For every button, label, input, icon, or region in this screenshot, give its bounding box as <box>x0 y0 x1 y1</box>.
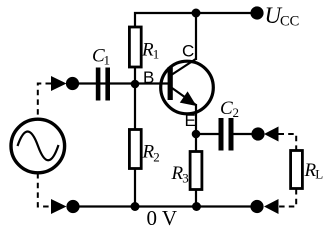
svg-text:2: 2 <box>153 150 160 165</box>
svg-text:C: C <box>182 42 194 61</box>
svg-text:E: E <box>185 111 196 130</box>
svg-text:L: L <box>315 167 323 182</box>
svg-text:3: 3 <box>182 171 189 186</box>
svg-text:2: 2 <box>233 105 240 120</box>
svg-text:1: 1 <box>153 47 160 62</box>
svg-text:CC: CC <box>280 14 299 30</box>
svg-text:B: B <box>143 68 154 87</box>
svg-text:C: C <box>220 98 233 119</box>
svg-text:0 V: 0 V <box>147 206 178 230</box>
svg-text:1: 1 <box>104 53 111 68</box>
